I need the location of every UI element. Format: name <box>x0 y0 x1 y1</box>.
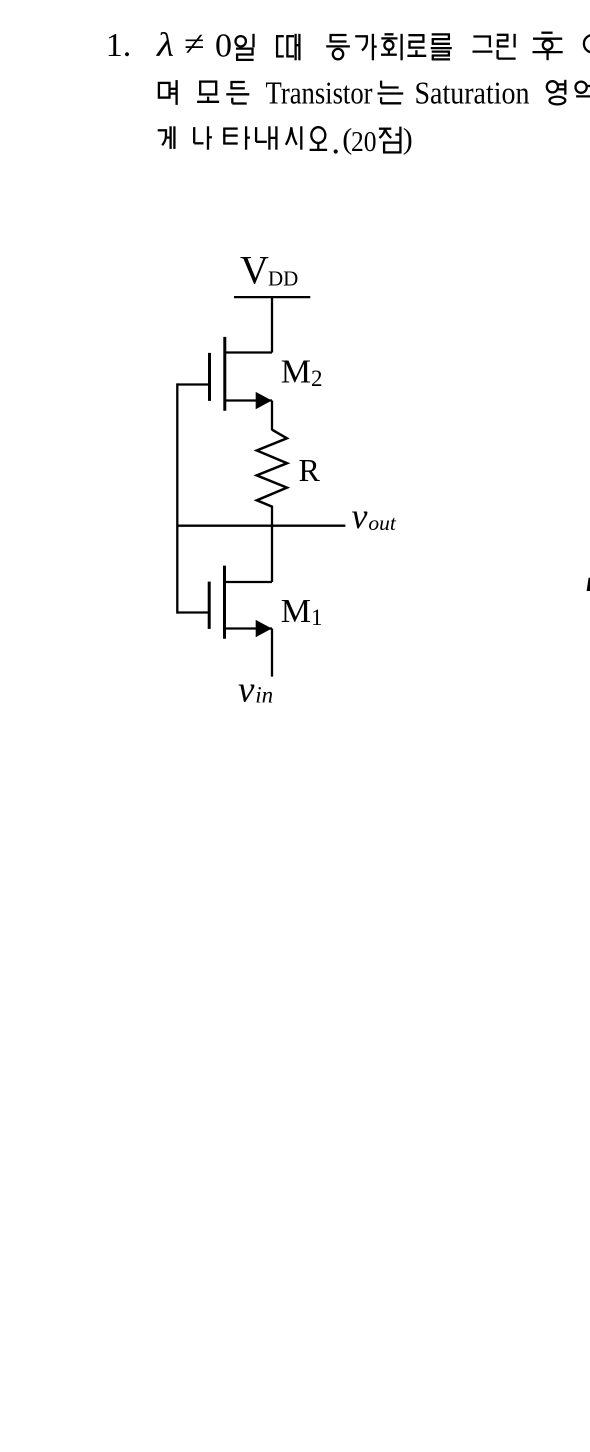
svg-text:in: in <box>255 683 273 708</box>
wire M2 gate lead <box>177 383 209 385</box>
label vout <box>352 496 397 536</box>
hangul 그 <box>473 37 493 52</box>
problem text line 3 (Latin "(20", ")") <box>342 122 413 158</box>
hangul 등 <box>326 35 350 59</box>
label V of next column (clipped at right page edge) <box>587 578 590 591</box>
svg-text:V: V <box>240 248 269 293</box>
problem text line 2 (Latin) <box>266 75 530 111</box>
hangul 역 (clipped at right page edge) <box>576 80 590 104</box>
wire M1 source to vin <box>271 629 273 677</box>
hangul 든 <box>226 82 249 104</box>
hangul 회 <box>381 34 402 61</box>
hangul 타 <box>223 126 250 149</box>
hangul 로 <box>407 35 426 56</box>
power rail VDD <box>234 296 310 298</box>
hangul 오 <box>310 127 328 150</box>
svg-text:λ: λ <box>156 27 174 64</box>
hangul 게 <box>158 126 175 149</box>
svg-text:Saturation: Saturation <box>415 75 530 111</box>
label vin <box>238 670 273 711</box>
hangul 를 <box>431 34 452 59</box>
wire M2 source to resistor R <box>271 401 273 431</box>
wire node vout to M1 drain <box>271 526 273 582</box>
svg-text:1.: 1. <box>106 27 132 64</box>
hangul 며 <box>159 80 177 105</box>
problem text line 1 (Latin/Greek) <box>106 26 232 64</box>
hangul 린 <box>497 34 516 59</box>
hangul 후 <box>533 33 563 61</box>
label M2 <box>281 354 323 391</box>
svg-text:0: 0 <box>215 28 232 65</box>
svg-text:DD: DD <box>268 266 298 290</box>
svg-text:): ) <box>403 122 413 155</box>
svg-text:R: R <box>299 452 321 488</box>
wire M1 gate lead <box>177 611 209 613</box>
hangul 모 <box>197 82 219 102</box>
label VDD <box>240 248 298 293</box>
svg-text:1: 1 <box>311 605 323 630</box>
label M1 <box>281 593 323 630</box>
wire VDD rail to M2 drain <box>271 297 273 352</box>
hangul 시 <box>286 126 301 149</box>
svg-text:≠: ≠ <box>184 26 205 63</box>
wire gate bus from M2 gate to M1 gate <box>176 383 178 613</box>
hangul 때 <box>276 34 299 61</box>
wire resistor R to node vout <box>271 506 273 527</box>
svg-text:v: v <box>352 496 368 536</box>
svg-text:out: out <box>368 511 397 535</box>
hangul 가 <box>355 34 377 61</box>
hangul 영 <box>547 80 565 105</box>
hangul 나 <box>194 126 212 149</box>
svg-text:v: v <box>238 670 255 711</box>
hangul 일 <box>236 34 254 60</box>
node vout horizontal wire <box>177 525 345 527</box>
hangul 내 <box>256 126 276 149</box>
period after 나타내시오 <box>334 149 338 153</box>
svg-text:20: 20 <box>351 127 377 158</box>
transistor M1 <box>209 566 272 639</box>
hangul 점 <box>379 127 401 153</box>
svg-text:M: M <box>281 354 311 391</box>
hangul 이 (clipped at right page edge) <box>584 35 590 53</box>
label R <box>299 452 321 488</box>
hangul 는 <box>378 81 404 104</box>
svg-text:M: M <box>281 593 311 630</box>
transistor M2 <box>210 337 273 411</box>
svg-text:2: 2 <box>311 366 323 391</box>
resistor R <box>257 430 287 507</box>
svg-text:Transistor: Transistor <box>266 75 373 111</box>
